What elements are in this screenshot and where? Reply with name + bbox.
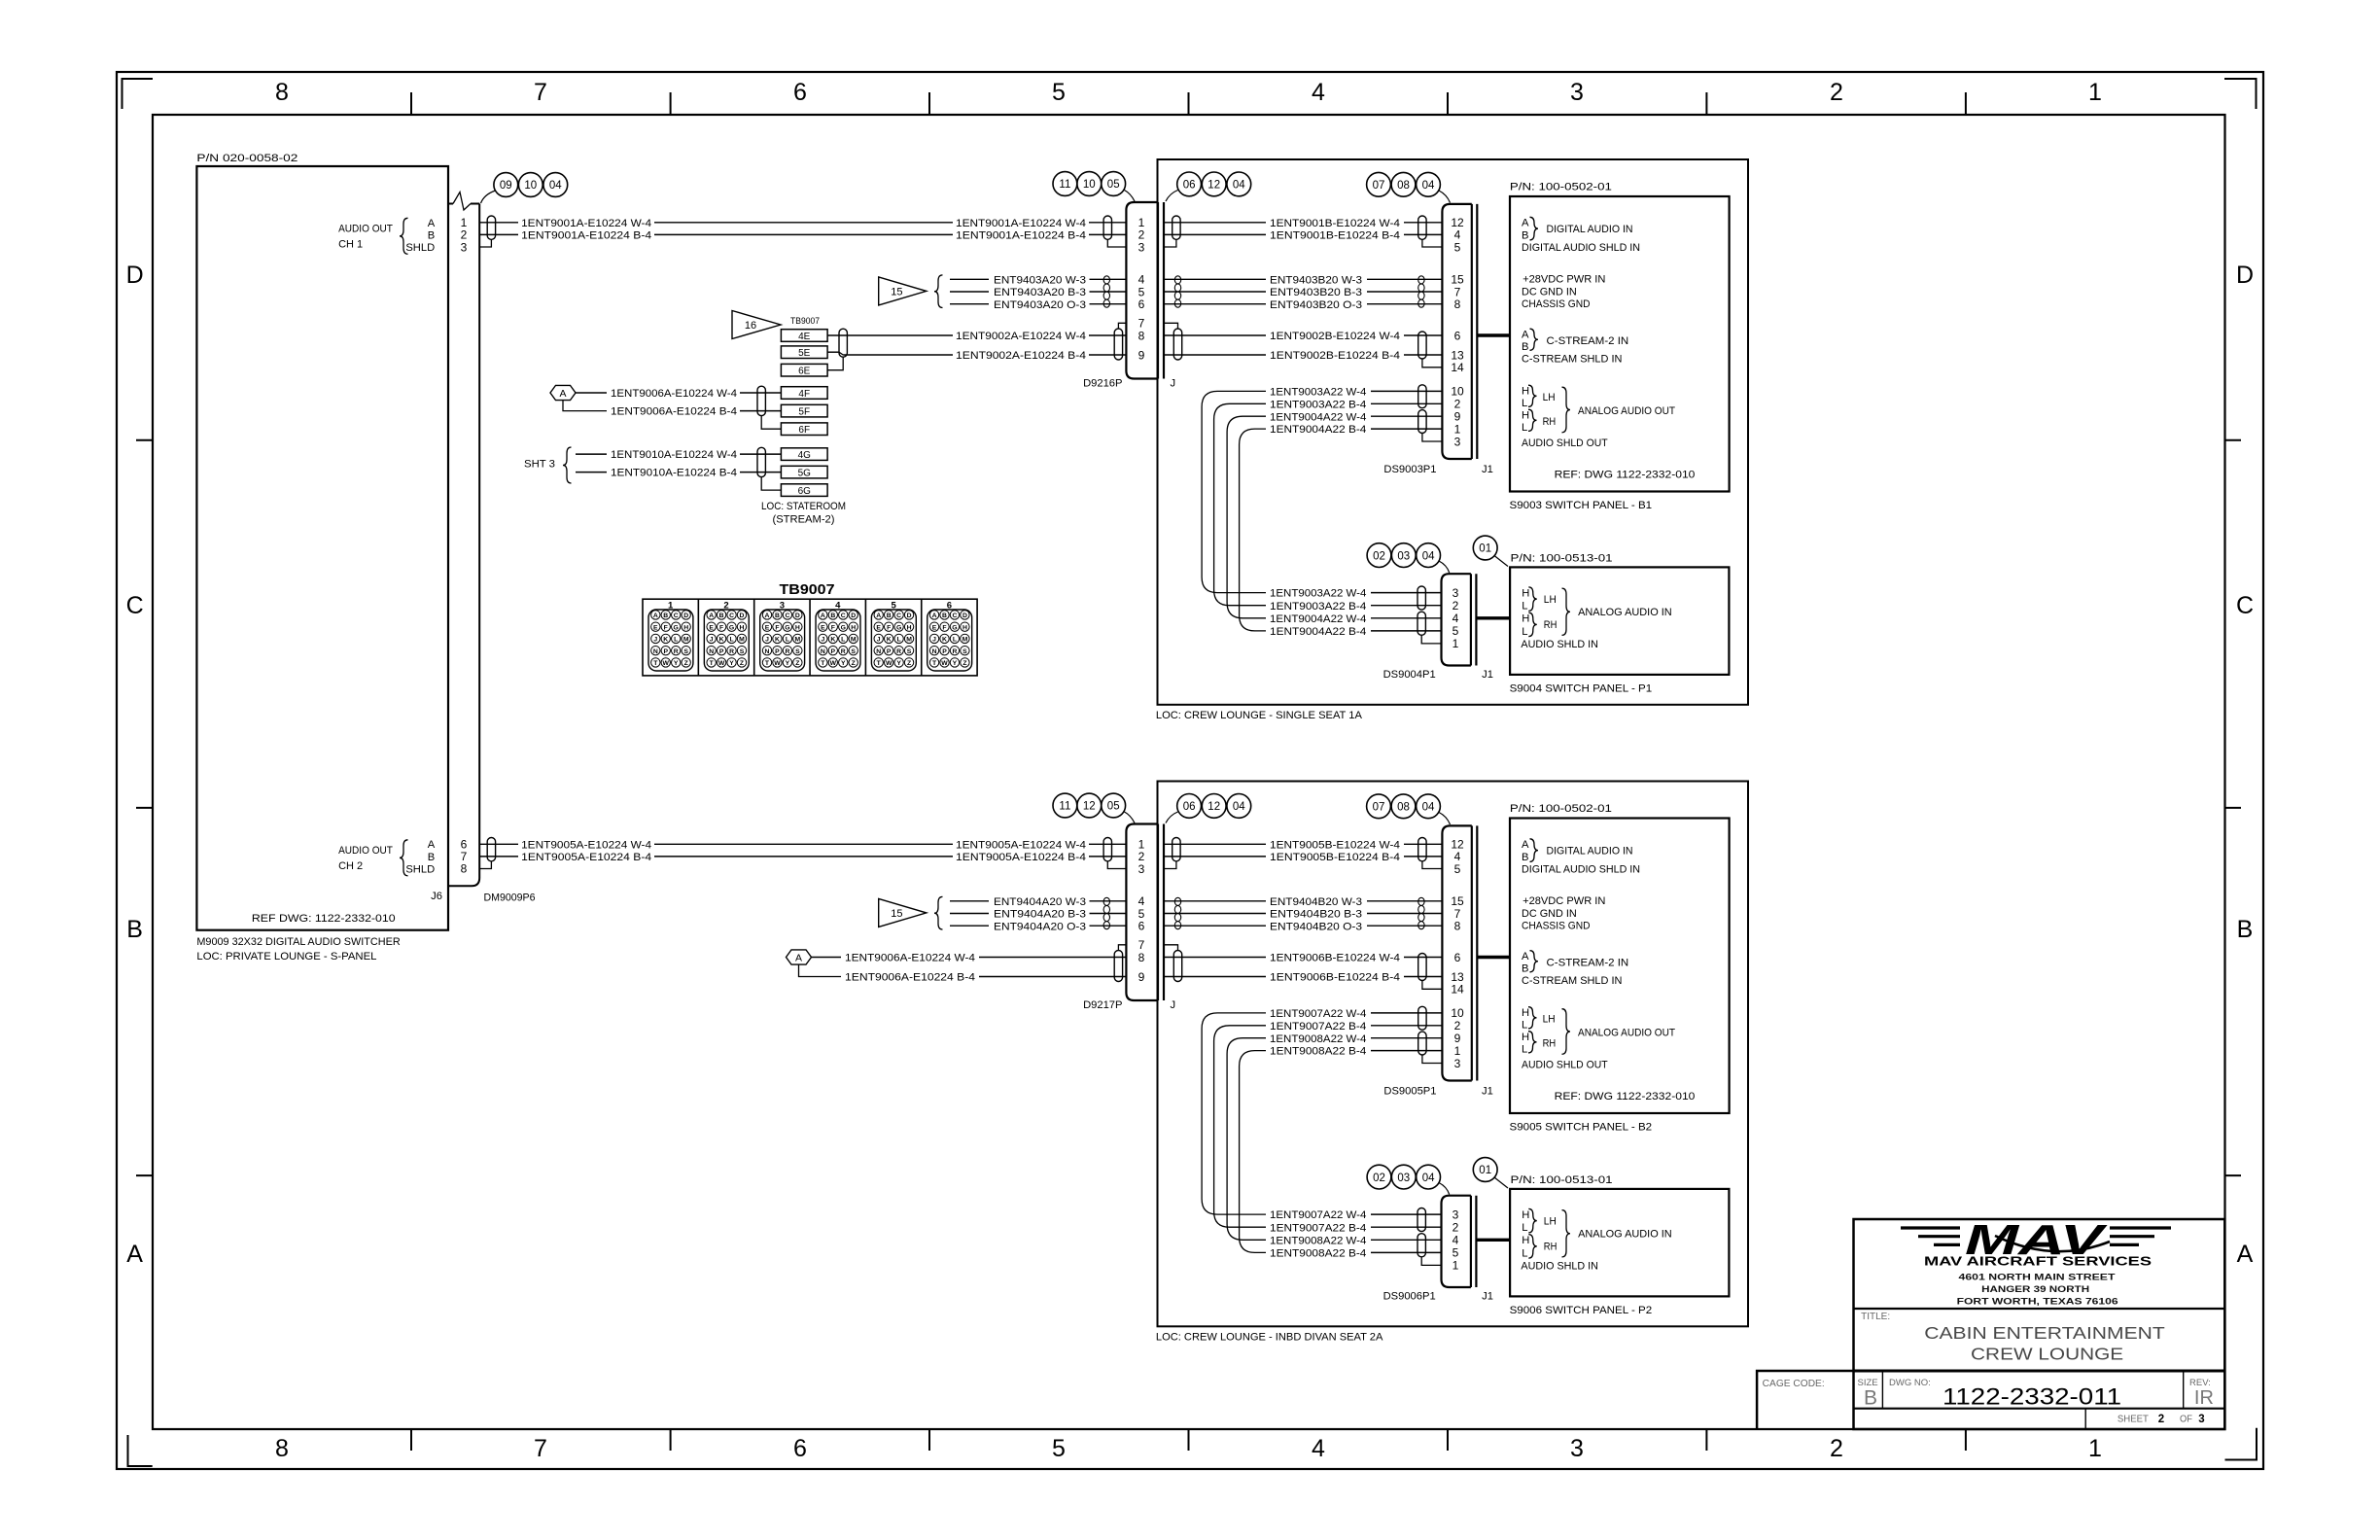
- wire TB9007-4E to 1ENT9002A W-4: [827, 334, 953, 336]
- svg-text:6E: 6E: [798, 367, 811, 377]
- balloon 07: [1367, 794, 1391, 819]
- svg-text:5F: 5F: [798, 406, 810, 417]
- svg-text:SHEET: SHEET: [2117, 1415, 2149, 1425]
- svg-text:J1: J1: [1482, 1291, 1493, 1303]
- svg-text:AUDIO SHLD OUT: AUDIO SHLD OUT: [1522, 437, 1608, 449]
- svg-text:DIGITAL AUDIO SHLD IN: DIGITAL AUDIO SHLD IN: [1522, 863, 1640, 875]
- svg-text:Z: Z: [907, 660, 911, 667]
- shield ferrule at M9009 side: [479, 861, 491, 869]
- svg-text:E: E: [876, 624, 881, 631]
- svg-text:4G: 4G: [798, 450, 812, 461]
- connector J1 mating line of DS9004P1: [1475, 574, 1477, 665]
- svg-text:LOC: CREW LOUNGE - INBD DIVAN: LOC: CREW LOUNGE - INBD DIVAN SEAT 2A: [1156, 1332, 1383, 1344]
- leader balloon 01 to P/N: [1494, 1177, 1508, 1188]
- svg-text:Y: Y: [896, 660, 901, 667]
- svg-text:09: 09: [500, 180, 512, 192]
- svg-text:4: 4: [1312, 1435, 1325, 1462]
- svg-text:D: D: [962, 612, 967, 619]
- wire 1ENT9007A22 B-4 loop DS9005P1 to DS9006P1: [1214, 1026, 1266, 1227]
- balloon 04: [1417, 543, 1441, 568]
- svg-text:DIGITAL AUDIO SHLD IN: DIGITAL AUDIO SHLD IN: [1522, 242, 1640, 254]
- svg-text:D: D: [851, 612, 856, 619]
- wire 1ENT9006B-E10224 B-4 into DS9005P1 pin 13: [1164, 976, 1266, 978]
- hex flag A (net 1ENT9006A, lower): [787, 950, 812, 964]
- svg-text:CHASSIS GND: CHASSIS GND: [1522, 921, 1591, 932]
- svg-text:J1: J1: [1482, 464, 1493, 475]
- enclosure box LOC: CREW LOUNGE - INBD DIVAN SEAT 2A: [1158, 782, 1749, 1327]
- svg-text:A: A: [1522, 839, 1529, 851]
- wire 1ENT9001A-E1022B-E10224 W-4 (J to DS9003P1): [1164, 222, 1266, 224]
- svg-text:B: B: [1522, 229, 1528, 241]
- wire 1ENT9006A-E10224 B-4 to D9217P pin 9: [799, 964, 842, 976]
- svg-text:10: 10: [1083, 179, 1096, 191]
- svg-text:1ENT9004A22 W-4: 1ENT9004A22 W-4: [1270, 613, 1366, 625]
- inner border frame: [153, 115, 2225, 1429]
- svg-text:H: H: [1522, 1007, 1529, 1019]
- svg-text:M: M: [851, 637, 857, 644]
- svg-text:5: 5: [1052, 1435, 1066, 1462]
- svg-text:1: 1: [1454, 1044, 1461, 1058]
- svg-text:L: L: [786, 637, 789, 644]
- svg-text:S: S: [683, 648, 688, 655]
- wire 1ENT9002B-E10224 B-4 into DS9003P1 pin 13: [1164, 354, 1266, 356]
- svg-text:P/N: 100-0502-01: P/N: 100-0502-01: [1510, 803, 1612, 815]
- svg-text:1ENT9007A22 W-4: 1ENT9007A22 W-4: [1270, 1008, 1366, 1020]
- svg-text:L: L: [1522, 626, 1527, 638]
- twisted-wire symbol at DS9005P1: [1418, 897, 1424, 905]
- shield ferrule at D9216P side: [1107, 239, 1126, 247]
- svg-text:B: B: [1522, 852, 1528, 863]
- svg-text:Y: Y: [674, 660, 679, 667]
- svg-text:G: G: [729, 624, 734, 631]
- connector J1 mating line of DS9003P1: [1476, 204, 1478, 459]
- svg-text:L: L: [729, 637, 733, 644]
- connector D9216P (plug): [1126, 202, 1158, 379]
- svg-text:A: A: [2237, 1241, 2254, 1268]
- svg-text:ENT9403B20 O-3: ENT9403B20 O-3: [1270, 299, 1362, 311]
- svg-text:CAGE CODE:: CAGE CODE:: [1763, 1379, 1825, 1389]
- svg-text:F: F: [887, 624, 891, 631]
- svg-text:S9006 SWITCH PANEL - P2: S9006 SWITCH PANEL - P2: [1510, 1305, 1653, 1316]
- twisted-wire symbol left of D connector: [1103, 276, 1109, 284]
- svg-text:DS9004P1: DS9004P1: [1383, 669, 1436, 681]
- svg-text:LOC: CREW LOUNGE - SINGLE SEAT: LOC: CREW LOUNGE - SINGLE SEAT 1A: [1156, 710, 1363, 721]
- wire ENT9403A20 O-3 to D9216P: [950, 303, 989, 305]
- svg-text:3: 3: [1570, 1435, 1584, 1462]
- svg-text:G: G: [674, 624, 679, 631]
- connector DS9003P1: [1442, 204, 1471, 459]
- svg-text:8: 8: [1454, 920, 1461, 933]
- svg-text:P: P: [887, 648, 892, 655]
- svg-text:M: M: [683, 637, 689, 644]
- flag note 15 triangle: [879, 277, 927, 305]
- svg-text:8: 8: [1138, 329, 1145, 342]
- svg-text:06: 06: [1183, 180, 1196, 192]
- svg-text:B: B: [830, 612, 835, 619]
- svg-text:6F: 6F: [798, 425, 810, 436]
- svg-text:16: 16: [745, 320, 756, 332]
- balloon 08: [1391, 794, 1416, 819]
- thick link DS9005P1 J1 to S9005: [1477, 956, 1510, 959]
- svg-text:N: N: [765, 648, 770, 655]
- TB9007 section 6: [921, 599, 923, 676]
- svg-text:TITLE:: TITLE:: [1861, 1312, 1890, 1322]
- svg-text:1ENT9006B-E10224 W-4: 1ENT9006B-E10224 W-4: [1270, 953, 1400, 964]
- svg-text:5: 5: [1454, 240, 1461, 254]
- svg-text:1ENT9003A22 B-4: 1ENT9003A22 B-4: [1270, 399, 1366, 410]
- svg-text:9: 9: [1454, 1032, 1461, 1045]
- svg-text:12: 12: [1083, 801, 1096, 813]
- svg-text:SHLD: SHLD: [405, 242, 435, 254]
- svg-text:S: S: [962, 648, 967, 655]
- terminal cell TB9007-6G: [781, 484, 827, 497]
- shield ferrule J side of D9216P: [1164, 239, 1176, 247]
- svg-text:SHLD: SHLD: [405, 863, 435, 875]
- svg-text:9: 9: [1454, 410, 1461, 424]
- svg-text:AUDIO SHLD IN: AUDIO SHLD IN: [1521, 1261, 1598, 1273]
- svg-text:1ENT9005A-E10224 B-4: 1ENT9005A-E10224 B-4: [956, 852, 1086, 863]
- svg-text:H: H: [1522, 1209, 1529, 1221]
- svg-text:1ENT9010A-E10224 W-4: 1ENT9010A-E10224 W-4: [611, 449, 737, 461]
- svg-text:5: 5: [1452, 1246, 1459, 1260]
- svg-text:2: 2: [2158, 1414, 2164, 1425]
- SHEET row: [2084, 1409, 2086, 1429]
- svg-text:1ENT9006A-E10224 W-4: 1ENT9006A-E10224 W-4: [845, 953, 975, 964]
- svg-text:B: B: [428, 230, 435, 242]
- svg-text:5: 5: [1454, 862, 1461, 876]
- wire 1ENT9001A-E10224 B-4 (M9009 to D9216P): [479, 233, 518, 235]
- svg-text:ENT9403A20 B-3: ENT9403A20 B-3: [994, 287, 1086, 298]
- svg-text:ANALOG AUDIO IN: ANALOG AUDIO IN: [1578, 607, 1672, 618]
- svg-text:R: R: [896, 648, 901, 655]
- svg-text:DS9005P1: DS9005P1: [1383, 1086, 1436, 1098]
- svg-text:8: 8: [275, 1435, 289, 1462]
- svg-text:ENT9404B20 O-3: ENT9404B20 O-3: [1270, 921, 1362, 932]
- svg-text:3: 3: [1454, 1057, 1461, 1070]
- TB9007 section 3: [753, 599, 755, 676]
- svg-text:Z: Z: [962, 660, 966, 667]
- TB9007 section 2: [697, 599, 699, 676]
- svg-text:10: 10: [1451, 385, 1464, 399]
- svg-text:CH 1: CH 1: [338, 238, 363, 250]
- svg-text:B: B: [663, 612, 668, 619]
- terminal cell TB9007-4F: [781, 387, 827, 400]
- svg-text:1ENT9005A-E10224 B-4: 1ENT9005A-E10224 B-4: [521, 852, 651, 863]
- svg-text:08: 08: [1397, 180, 1410, 192]
- svg-text:3: 3: [1138, 862, 1145, 876]
- wire ENT9403A20 B-3 to D9216P: [950, 291, 989, 293]
- svg-text:DC GND IN: DC GND IN: [1522, 287, 1577, 298]
- svg-text:1ENT9006A-E10224 W-4: 1ENT9006A-E10224 W-4: [611, 388, 737, 400]
- leader balloons to D9217P: [1125, 812, 1136, 823]
- svg-text:S9004 SWITCH PANEL - P1: S9004 SWITCH PANEL - P1: [1510, 682, 1653, 694]
- corner bracket top-left: [122, 79, 154, 109]
- thick link DS9006P1 J1 to S9006: [1476, 1239, 1510, 1242]
- svg-text:05: 05: [1107, 801, 1120, 813]
- connector DS9006P1: [1442, 1196, 1471, 1287]
- svg-text:ENT9403B20 B-3: ENT9403B20 B-3: [1270, 287, 1362, 298]
- connector DS9005P1: [1442, 825, 1471, 1080]
- svg-text:B: B: [428, 852, 435, 863]
- svg-text:3: 3: [461, 240, 468, 254]
- svg-text:C: C: [952, 612, 957, 619]
- svg-text:J: J: [821, 637, 824, 644]
- triple ENT9404B20 J side: [1164, 900, 1266, 902]
- svg-text:J6: J6: [431, 891, 442, 902]
- svg-text:1ENT9001A-E10224 B-4: 1ENT9001A-E10224 B-4: [521, 230, 651, 242]
- svg-text:1ENT9004A22 B-4: 1ENT9004A22 B-4: [1270, 626, 1366, 638]
- svg-text:A: A: [795, 953, 802, 964]
- zone ticks top border: [410, 92, 412, 115]
- svg-text:L: L: [1522, 398, 1527, 409]
- svg-text:P/N: 100-0513-01: P/N: 100-0513-01: [1511, 553, 1613, 565]
- flag note 15 triangle: [879, 898, 927, 927]
- balloon 05: [1102, 793, 1126, 818]
- connector J1 mating line of DS9005P1: [1476, 825, 1478, 1080]
- svg-text:J1: J1: [1482, 669, 1493, 681]
- brace CH1 A/B/SHLD: [400, 218, 408, 254]
- svg-text:1ENT9002A-E10224 B-4: 1ENT9002A-E10224 B-4: [956, 350, 1086, 362]
- svg-text:A: A: [653, 612, 658, 619]
- leader balloons to D9216P: [1125, 191, 1136, 202]
- svg-text:9: 9: [1138, 970, 1145, 984]
- svg-text:C: C: [126, 592, 144, 619]
- wire ENT9404A20 O-3 to D9217P: [950, 925, 989, 927]
- svg-text:04: 04: [1422, 180, 1435, 192]
- svg-text:1ENT9007A22 W-4: 1ENT9007A22 W-4: [1270, 1209, 1366, 1221]
- connector D9217P (plug): [1126, 824, 1158, 1001]
- svg-text:B: B: [1864, 1387, 1877, 1410]
- balloon 06: [1177, 172, 1202, 196]
- svg-text:10: 10: [1451, 1006, 1464, 1020]
- svg-text:C: C: [674, 612, 679, 619]
- svg-text:L: L: [1522, 1247, 1527, 1259]
- balloon 11: [1053, 172, 1077, 196]
- svg-text:AUDIO OUT: AUDIO OUT: [338, 845, 393, 857]
- svg-text:S: S: [907, 648, 912, 655]
- svg-text:LOC: PRIVATE LOUNGE - S-PANEL: LOC: PRIVATE LOUNGE - S-PANEL: [196, 951, 376, 962]
- balloon 04: [543, 173, 568, 197]
- svg-text:ENT9404A20 O-3: ENT9404A20 O-3: [994, 921, 1086, 932]
- svg-text:S: S: [740, 648, 745, 655]
- svg-text:J: J: [653, 637, 657, 644]
- svg-text:F: F: [664, 624, 668, 631]
- switch panel S9005 box: [1510, 819, 1730, 1114]
- connector J (receptacle) mating line of D9217P: [1163, 824, 1165, 1001]
- svg-text:DIGITAL AUDIO IN: DIGITAL AUDIO IN: [1547, 224, 1633, 235]
- svg-text:J: J: [932, 637, 936, 644]
- svg-text:4: 4: [1452, 1234, 1459, 1247]
- svg-text:C-STREAM SHLD IN: C-STREAM SHLD IN: [1522, 975, 1622, 987]
- svg-text:2: 2: [1454, 398, 1461, 411]
- svg-text:ENT9403A20 O-3: ENT9403A20 O-3: [994, 299, 1086, 311]
- svg-text:A: A: [1522, 951, 1529, 962]
- svg-text:E: E: [821, 624, 825, 631]
- wire 1ENT9005A-E10224 W-4 (M9009 to D9217P): [479, 843, 518, 845]
- svg-text:H: H: [740, 624, 745, 631]
- shield jumper TB9007-6E: [827, 357, 843, 370]
- terminal cell TB9007-4E: [781, 330, 827, 342]
- svg-text:S9003 SWITCH PANEL - B1: S9003 SWITCH PANEL - B1: [1510, 500, 1653, 511]
- svg-text:7: 7: [534, 1435, 547, 1462]
- brace SHT 3: [563, 447, 572, 483]
- svg-text:MAV AIRCRAFT SERVICES: MAV AIRCRAFT SERVICES: [1924, 1254, 2152, 1269]
- twisted-wire symbol right of J: [1174, 276, 1180, 284]
- svg-text:05: 05: [1107, 179, 1120, 191]
- svg-text:6: 6: [793, 79, 807, 106]
- shield ferrule J side of D9217P: [1164, 861, 1176, 869]
- svg-text:14: 14: [1451, 361, 1464, 374]
- svg-text:L: L: [1522, 1222, 1527, 1234]
- svg-text:H: H: [683, 624, 688, 631]
- shield ferrule at DS9005P1 pins 12/4: [1418, 838, 1426, 861]
- svg-text:04: 04: [549, 180, 562, 192]
- svg-text:R: R: [729, 648, 734, 655]
- balloon 06: [1177, 794, 1202, 819]
- svg-text:J: J: [1171, 378, 1176, 390]
- wire 1ENT9010A-E10224 B-4 to TB9007-5G: [576, 472, 607, 473]
- connector J (receptacle) mating line of D9216P: [1163, 202, 1165, 379]
- svg-text:3: 3: [1452, 586, 1459, 600]
- svg-text:W: W: [718, 660, 725, 667]
- balloon 12: [1202, 172, 1226, 196]
- svg-text:+28VDC PWR IN: +28VDC PWR IN: [1522, 273, 1605, 285]
- svg-text:K: K: [887, 637, 892, 644]
- svg-text:A: A: [765, 612, 770, 619]
- svg-text:H: H: [1522, 588, 1529, 600]
- svg-text:R: R: [785, 648, 789, 655]
- wire 1ENT9006A-E10224 W-4 to D9217P pin 8: [812, 957, 842, 959]
- balloon 08: [1391, 172, 1416, 196]
- svg-text:B: B: [1522, 341, 1528, 353]
- svg-text:A: A: [428, 218, 436, 229]
- balloon 01: [1473, 536, 1497, 560]
- leader balloons to J: [1166, 191, 1178, 202]
- svg-text:L: L: [953, 637, 957, 644]
- svg-text:1ENT9001B-E10224 W-4: 1ENT9001B-E10224 W-4: [1270, 218, 1400, 229]
- svg-text:S: S: [795, 648, 800, 655]
- M9009 32X32 digital audio switcher box: [196, 166, 448, 930]
- brace for triple wires: [934, 275, 943, 308]
- svg-text:Y: Y: [786, 660, 790, 667]
- svg-text:1ENT9006A-E10224 B-4: 1ENT9006A-E10224 B-4: [611, 406, 737, 418]
- zone ticks bottom border: [410, 1429, 412, 1451]
- svg-text:5: 5: [1052, 79, 1066, 106]
- svg-text:H: H: [1522, 386, 1529, 398]
- svg-text:OF: OF: [2180, 1415, 2192, 1425]
- svg-text:01: 01: [1479, 543, 1491, 555]
- svg-text:1ENT9008A22 W-4: 1ENT9008A22 W-4: [1270, 1033, 1366, 1045]
- wire 1ENT9010A-E10224 W-4 to TB9007-4G: [576, 453, 607, 455]
- svg-text:DS9006P1: DS9006P1: [1383, 1291, 1436, 1303]
- svg-text:7: 7: [534, 79, 547, 106]
- svg-text:2: 2: [1452, 1221, 1459, 1235]
- svg-text:15: 15: [891, 286, 902, 297]
- balloon 12: [1202, 794, 1226, 819]
- wire 1ENT9008A22 W-4 loop DS9005P1 to DS9006P1: [1227, 1038, 1266, 1241]
- svg-text:1ENT9001A-E10224 B-4: 1ENT9001A-E10224 B-4: [956, 230, 1086, 242]
- svg-text:A: A: [126, 1241, 143, 1268]
- svg-text:A: A: [821, 612, 825, 619]
- switch panel S9003 box: [1510, 196, 1730, 492]
- wire 1ENT9006B-E10224 W-4 into DS9005P1 pin 6: [1164, 945, 1178, 951]
- wire 1ENT9005B-E10224 B-4: [1164, 856, 1266, 857]
- svg-text:REF DWG: 1122-2332-010: REF DWG: 1122-2332-010: [252, 913, 396, 925]
- svg-text:L: L: [1522, 1020, 1527, 1032]
- svg-text:1122-2332-011: 1122-2332-011: [1942, 1384, 2121, 1411]
- zone ticks right border: [2225, 439, 2242, 441]
- svg-text:1ENT9003A22 B-4: 1ENT9003A22 B-4: [1270, 601, 1366, 612]
- svg-text:9: 9: [1138, 348, 1145, 362]
- balloon 05: [1102, 172, 1126, 196]
- svg-text:Y: Y: [841, 660, 846, 667]
- svg-text:1: 1: [1454, 422, 1461, 436]
- leader balloon 01 to P/N: [1494, 556, 1508, 567]
- balloon 04: [1417, 172, 1441, 196]
- svg-text:1ENT9004A22 B-4: 1ENT9004A22 B-4: [1270, 424, 1366, 436]
- terminal cell TB9007-6E: [781, 364, 827, 376]
- svg-text:1ENT9004A22 W-4: 1ENT9004A22 W-4: [1270, 411, 1366, 423]
- svg-text:CHASSIS GND: CHASSIS GND: [1522, 298, 1591, 310]
- zone ticks left border: [136, 439, 153, 441]
- svg-text:8: 8: [275, 79, 289, 106]
- svg-text:07: 07: [1373, 180, 1385, 192]
- svg-text:11: 11: [1059, 179, 1070, 191]
- svg-text:N: N: [709, 648, 714, 655]
- SIZE cell: [1881, 1371, 1883, 1409]
- svg-text:2: 2: [1830, 1435, 1843, 1462]
- svg-text:04: 04: [1422, 550, 1435, 562]
- svg-text:L: L: [1522, 1044, 1527, 1056]
- svg-text:G: G: [952, 624, 957, 631]
- wire 1ENT9001B-E10224 B-4: [1164, 233, 1266, 235]
- wire 1ENT9006A-E10224 B-4 to TB9007-5F: [563, 401, 607, 411]
- svg-text:M: M: [795, 637, 801, 644]
- svg-text:1: 1: [1452, 637, 1459, 650]
- svg-text:H: H: [851, 624, 856, 631]
- svg-text:M: M: [906, 637, 912, 644]
- svg-text:Y: Y: [729, 660, 734, 667]
- svg-text:1ENT9003A22 W-4: 1ENT9003A22 W-4: [1270, 588, 1366, 600]
- svg-text:LH: LH: [1544, 594, 1557, 606]
- svg-text:M: M: [739, 637, 745, 644]
- svg-text:W: W: [663, 660, 670, 667]
- svg-text:1ENT9001A-E10224 W-4: 1ENT9001A-E10224 W-4: [521, 218, 651, 229]
- shield ferrule at M9009 side: [479, 239, 491, 247]
- svg-text:RH: RH: [1543, 416, 1557, 428]
- shield ferrule at DS9003P1 pins 12/4: [1418, 216, 1426, 239]
- svg-text:12: 12: [1207, 180, 1220, 192]
- svg-text:DC GND IN: DC GND IN: [1522, 908, 1577, 920]
- wire TB9007-5E to 1ENT9002A B-4: [827, 351, 839, 353]
- svg-text:K: K: [830, 637, 835, 644]
- corner bracket top-right: [2224, 79, 2257, 109]
- balloon 02: [1367, 543, 1391, 568]
- svg-text:01: 01: [1479, 1165, 1491, 1176]
- switch panel S9006 box: [1510, 1189, 1729, 1297]
- svg-text:1ENT9001A-E10224 W-4: 1ENT9001A-E10224 W-4: [956, 218, 1086, 229]
- svg-text:B: B: [887, 612, 892, 619]
- svg-text:C: C: [896, 612, 901, 619]
- svg-text:4F: 4F: [798, 389, 810, 400]
- svg-text:G: G: [785, 624, 789, 631]
- shield ferrule at TB9007 4E/5E: [839, 329, 847, 357]
- svg-text:F: F: [942, 624, 946, 631]
- balloon 03: [1391, 1165, 1416, 1189]
- flag note 16 triangle: [732, 311, 781, 339]
- svg-text:Z: Z: [740, 660, 744, 667]
- svg-text:D: D: [795, 612, 800, 619]
